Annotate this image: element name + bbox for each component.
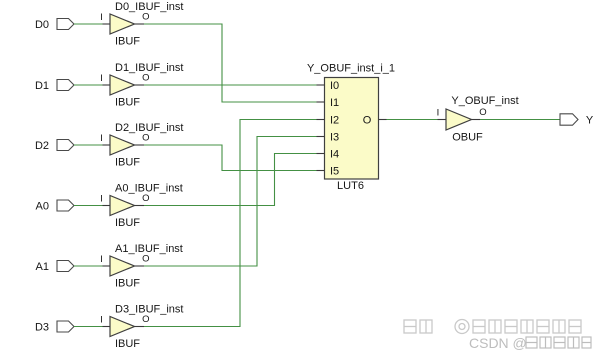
wire net Y (OBUF output to port Y) (480, 119, 560, 121)
buffer D0_IBUF_inst (IBUF) (100, 1, 183, 48)
svg-text:I2: I2 (330, 115, 339, 127)
wire net D0 (port to IBUF input) (74, 23, 103, 25)
svg-text:D0: D0 (35, 19, 49, 31)
LUT pin I2 (317, 119, 325, 121)
svg-text:O: O (479, 107, 486, 118)
svg-text:I1: I1 (330, 97, 339, 109)
LUT U: Y_OBUF_inst_i_1 (LUT6) (307, 63, 395, 193)
buffer D1_IBUF_inst (IBUF) (100, 62, 183, 109)
wire net A1 (port to IBUF input) (74, 265, 103, 267)
svg-text:I5: I5 (330, 166, 339, 178)
LUT pin I1 (317, 101, 325, 103)
wire net A1_IBUF (IBUF output to LUT pin I3) (144, 137, 317, 267)
output port Y (560, 114, 594, 127)
LUT pin I3 (317, 136, 325, 138)
buffer A1_IBUF_inst (IBUF) (100, 243, 183, 290)
wire net D3_IBUF (IBUF output to LUT pin I2) (144, 120, 317, 327)
watermark zhihu @wanpingnanluliyisheng (CJK drawn as glyph boxes) (404, 320, 581, 334)
svg-text:Y: Y (586, 115, 594, 127)
buffer D3_IBUF_inst (IBUF) (100, 304, 183, 351)
wire net D2_IBUF (IBUF output to LUT pin I5) (144, 145, 317, 171)
svg-text:I: I (437, 108, 440, 119)
input port A0 (36, 200, 74, 213)
svg-text:O: O (363, 115, 372, 127)
svg-text:I: I (100, 194, 103, 205)
svg-text:I: I (100, 73, 103, 84)
svg-text:IBUF: IBUF (115, 278, 140, 290)
svg-text:I: I (100, 133, 103, 144)
watermark CSDN @guduidedandao (CJK drawn as glyph boxes) (469, 335, 591, 351)
input port D1 (35, 80, 74, 93)
svg-text:O: O (142, 193, 149, 204)
wire net D1 (port to IBUF input) (74, 84, 103, 86)
svg-text:O: O (142, 133, 149, 144)
svg-text:IBUF: IBUF (115, 36, 140, 48)
svg-text:IBUF: IBUF (115, 338, 140, 350)
wire net D2 (port to IBUF input) (74, 144, 103, 146)
svg-text:O: O (142, 254, 149, 265)
wire net D3 (port to IBUF input) (74, 326, 103, 328)
LUT pin I0 (317, 84, 325, 86)
svg-text:D3: D3 (35, 322, 49, 334)
svg-text:IBUF: IBUF (115, 217, 140, 229)
svg-text:I: I (100, 12, 103, 23)
buffer D2_IBUF_inst (IBUF) (100, 122, 183, 169)
wire net D1_IBUF (IBUF output to LUT pin I0) (144, 84, 317, 86)
LUT pin I5 (317, 170, 325, 172)
svg-text:IBUF: IBUF (115, 97, 140, 109)
svg-text:D2: D2 (35, 140, 49, 152)
input port A1 (36, 261, 74, 274)
LUT pin I4 (317, 153, 325, 155)
LUT pin O (379, 119, 387, 121)
svg-text:I: I (100, 315, 103, 326)
svg-text:I3: I3 (330, 132, 339, 144)
svg-text:I0: I0 (330, 80, 339, 92)
wire net D0_IBUF (IBUF output to LUT pin I1) (144, 24, 317, 102)
svg-text:O: O (142, 12, 149, 23)
svg-text:LUT6: LUT6 (337, 180, 364, 192)
svg-text:O: O (142, 314, 149, 325)
svg-text:OBUF: OBUF (452, 132, 483, 144)
input port D2 (35, 140, 74, 153)
svg-text:Y_OBUF_inst: Y_OBUF_inst (451, 95, 518, 107)
input port D0 (35, 19, 74, 32)
buffer Y_OBUF_inst (OBUF) (437, 95, 519, 144)
svg-text:CSDN @: CSDN @ (469, 335, 527, 351)
buffer A0_IBUF_inst (IBUF) (100, 183, 183, 230)
wire net Y_OBUF (LUT O to OBUF input) (387, 119, 438, 121)
wire net A0_IBUF (IBUF output to LUT pin I4) (144, 154, 317, 206)
svg-text:A1: A1 (36, 261, 49, 273)
svg-text:I4: I4 (330, 149, 339, 161)
svg-text:Y_OBUF_inst_i_1: Y_OBUF_inst_i_1 (307, 63, 395, 75)
input port D3 (35, 321, 74, 334)
svg-text:A0: A0 (36, 201, 49, 213)
svg-text:D1: D1 (35, 80, 49, 92)
svg-text:I: I (100, 254, 103, 265)
svg-text:O: O (142, 73, 149, 84)
svg-text:IBUF: IBUF (115, 157, 140, 169)
wire net A0 (port to IBUF input) (74, 205, 103, 207)
